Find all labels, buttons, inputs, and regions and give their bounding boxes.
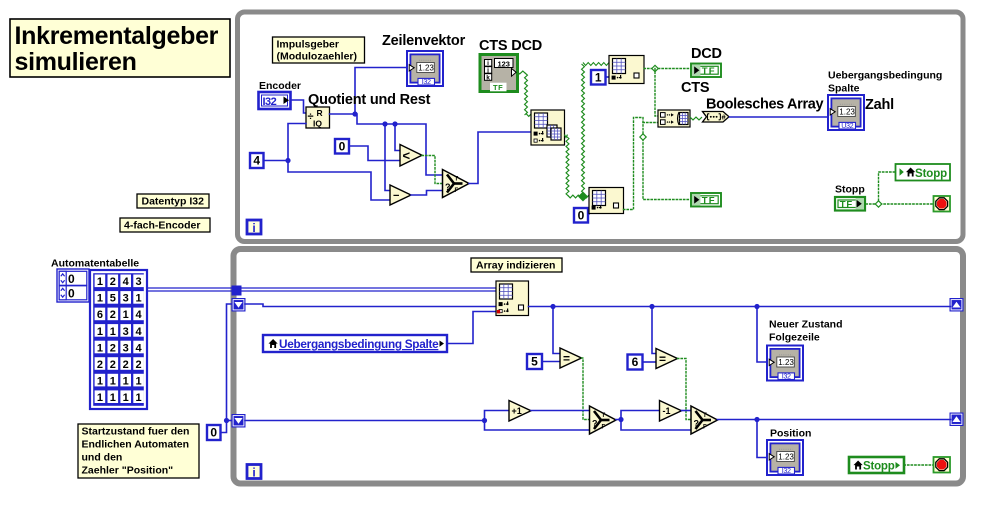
subtract node	[390, 185, 411, 205]
svg-text:1.23: 1.23	[839, 108, 855, 117]
2D array constant Automatentabelle	[90, 270, 147, 409]
TF indicator CTS	[691, 193, 721, 207]
wire: 6 to equals	[643, 361, 657, 363]
constant 0 (loop 1)	[335, 139, 349, 154]
svg-text:4: 4	[136, 326, 143, 338]
svg-text:6: 6	[97, 309, 103, 321]
svg-text:i: i	[252, 221, 255, 235]
svg-text:i: i	[487, 60, 489, 67]
svg-text:T: T	[602, 413, 606, 419]
iteration terminal i (loop 1)	[247, 220, 261, 235]
svg-text:Impulsgeber: Impulsgeber	[277, 39, 339, 51]
wire: state to Neuer Zustand indicator	[757, 307, 766, 363]
svg-text:Zaehler "Position": Zaehler "Position"	[82, 465, 174, 477]
svg-text:1: 1	[97, 375, 103, 387]
wire: initializer 0 to shift registers	[220, 304, 232, 433]
wire: select out to index array	[469, 132, 531, 184]
svg-text:4: 4	[253, 154, 260, 168]
wire: to select1 false input	[485, 421, 590, 431]
indicator terminal Zahl U32	[828, 95, 864, 130]
select node 1 (loop 2)	[590, 406, 617, 434]
svg-text:+1: +1	[512, 406, 522, 416]
junction diamond DCD	[652, 65, 658, 71]
wire: state to equals 6	[652, 307, 656, 354]
svg-text:Quotient und Rest: Quotient und Rest	[308, 92, 431, 108]
wire: local variable to index array column input	[447, 312, 496, 344]
comment box "Startzustand..."	[78, 424, 199, 478]
svg-text:5: 5	[531, 355, 538, 369]
svg-text:1: 1	[110, 375, 116, 387]
constant 0 initializer	[207, 425, 221, 440]
svg-text:F: F	[703, 425, 707, 431]
equals node 1	[560, 348, 582, 368]
svg-text:I32: I32	[782, 466, 791, 475]
wire: constant 4 distribution	[264, 160, 289, 162]
constant 1	[591, 70, 606, 85]
wire: branch to less-than node	[395, 124, 400, 151]
svg-text:0: 0	[578, 208, 585, 222]
wire: state to equals 5	[553, 307, 560, 354]
wire (boolean): stop distribution	[866, 203, 934, 205]
svg-text:?: ?	[445, 182, 451, 192]
select node 2 (loop 2)	[691, 406, 718, 434]
shift register right (state)	[950, 299, 963, 312]
svg-text:F: F	[455, 188, 459, 194]
svg-text:IQ: IQ	[313, 119, 322, 129]
svg-text:Automatentabelle: Automatentabelle	[51, 258, 139, 270]
svg-text:3: 3	[123, 293, 129, 305]
svg-text:Stopp: Stopp	[835, 184, 865, 196]
svg-text:1: 1	[97, 392, 103, 404]
TF indicator DCD	[691, 64, 721, 78]
decrement node -1	[660, 401, 682, 422]
junction quotient/Zeilenvektor	[352, 111, 357, 116]
constant 4	[250, 153, 264, 168]
wire: select2 out / position line	[718, 419, 951, 421]
svg-text:CTS DCD: CTS DCD	[479, 38, 542, 54]
svg-text:Uebergangsbedingung Spalte: Uebergangsbedingung Spalte	[279, 337, 439, 351]
svg-text:Folgezeile: Folgezeile	[769, 332, 820, 344]
svg-text:1: 1	[97, 342, 103, 354]
svg-text:Neuer Zustand: Neuer Zustand	[769, 319, 843, 331]
less-than node	[400, 145, 422, 167]
iteration terminal i (loop 2)	[247, 465, 261, 480]
svg-text:?: ?	[592, 419, 598, 429]
svg-text:4-fach-Encoder: 4-fach-Encoder	[124, 220, 200, 232]
svg-text:1.23: 1.23	[778, 358, 794, 367]
while loop 1 frame	[238, 12, 964, 242]
junction init	[224, 418, 229, 423]
constant 5	[527, 354, 542, 369]
wire: 0 to index node	[588, 210, 589, 214]
while loop 2 frame	[234, 249, 964, 484]
svg-text:0: 0	[68, 286, 75, 300]
svg-text:3: 3	[123, 326, 129, 338]
wire: 1 to index node	[606, 76, 610, 78]
svg-text:TF: TF	[702, 66, 716, 77]
svg-text:U32: U32	[841, 121, 853, 130]
junction diamond stop	[875, 201, 881, 207]
svg-text:I32: I32	[782, 372, 791, 381]
wire: number to Zahl indicator	[730, 116, 828, 118]
wire: new state main line	[529, 306, 951, 308]
svg-text:123: 123	[497, 59, 510, 68]
label box "Array indizieren"	[471, 258, 562, 272]
junction on 4-wire	[285, 158, 290, 163]
svg-text:Datentyp I32: Datentyp I32	[142, 196, 205, 208]
svg-text:Endlichen Automaten: Endlichen Automaten	[82, 439, 190, 451]
wire (boolean): Stopp local to stop button	[904, 464, 934, 466]
junction dots on quotient wire	[382, 121, 387, 126]
wire: 5 to equals	[542, 361, 560, 363]
svg-text:1: 1	[136, 293, 142, 305]
index array node (CTS bit)	[589, 188, 624, 214]
svg-text:-1: -1	[663, 406, 671, 416]
indicator terminal Zeilenvektor I32	[407, 51, 443, 86]
svg-text:I32: I32	[263, 96, 277, 108]
svg-text:F: F	[602, 425, 606, 431]
svg-text:?: ?	[694, 419, 700, 429]
increment node +1	[509, 401, 531, 422]
junction position	[482, 418, 487, 423]
local variable Uebergangsbedingung Spalte (write)	[263, 335, 447, 352]
wire (2D array): tunnel to index array	[242, 287, 497, 289]
svg-text:TF: TF	[840, 200, 853, 211]
svg-text:0: 0	[68, 272, 75, 286]
wire: position feedback line	[245, 420, 485, 422]
svg-text:CTS: CTS	[681, 80, 710, 96]
svg-text:2: 2	[110, 309, 116, 321]
constant 0 (index CTS)	[574, 208, 588, 223]
wire: +1 to select1 true input	[531, 410, 590, 412]
wire: to +1	[485, 411, 510, 421]
wire (boolean): equals1 to select1	[582, 358, 590, 420]
label "Datentyp I32"	[137, 194, 209, 208]
junction dots on state wire	[550, 304, 555, 309]
tunnel (2D array into loop 2)	[232, 286, 242, 296]
svg-text:(Modulozaehler): (Modulozaehler)	[277, 51, 358, 63]
svg-text:1: 1	[123, 309, 129, 321]
svg-text:1: 1	[97, 326, 103, 338]
wire: branch to subtract node	[385, 124, 390, 191]
svg-text:3: 3	[136, 276, 142, 288]
svg-text:1: 1	[123, 392, 129, 404]
wire (boolean): CTS bit to TF + build array	[624, 118, 691, 210]
index array node (DCD bit)	[609, 56, 644, 84]
stop button terminal (loop 2)	[934, 457, 951, 473]
shift register left (position)	[232, 415, 245, 428]
constant 6	[628, 355, 643, 370]
local variable Stopp (write)	[896, 164, 951, 181]
svg-text:1: 1	[136, 375, 142, 387]
svg-text:DCD: DCD	[691, 46, 722, 62]
control terminal Encoder I32	[259, 92, 291, 109]
svg-text:j: j	[486, 67, 489, 74]
svg-text:Startzustand fuer den: Startzustand fuer den	[82, 426, 190, 438]
svg-text:6: 6	[632, 355, 639, 369]
svg-text:T: T	[703, 413, 707, 419]
svg-text:4: 4	[136, 342, 143, 354]
wire: select1 out	[616, 411, 660, 420]
svg-text:Stopp: Stopp	[863, 461, 895, 473]
svg-text:2: 2	[123, 359, 129, 371]
local variable Stopp (read, loop 2)	[849, 457, 904, 473]
svg-text:und den: und den	[82, 452, 123, 464]
svg-text:1.23: 1.23	[778, 453, 794, 462]
shift register right (position)	[950, 413, 963, 426]
svg-text:R: R	[317, 108, 323, 118]
wire: -1 to select2 true input	[682, 410, 692, 412]
svg-text:2: 2	[110, 342, 116, 354]
wire (boolean): less-than to select s input	[422, 156, 443, 184]
indicator terminal Neuer Zustand I32	[767, 346, 803, 381]
svg-text:Zeilenvektor: Zeilenvektor	[382, 33, 466, 49]
build array node	[658, 110, 690, 127]
wire (boolean array): build array to converter	[690, 117, 702, 120]
stop button terminal (loop 1)	[934, 196, 951, 212]
wire: 0 to less-than	[349, 146, 400, 161]
label "4-fach-Encoder"	[120, 218, 210, 232]
svg-text:1: 1	[110, 326, 116, 338]
svg-text:1: 1	[595, 70, 602, 84]
svg-text:2: 2	[136, 359, 142, 371]
wire: state shift register to index array	[245, 304, 496, 307]
index array node (row select)	[531, 110, 565, 145]
svg-text:Zahl: Zahl	[865, 97, 894, 113]
svg-text:=: =	[563, 352, 570, 366]
svg-text:5: 5	[110, 293, 116, 305]
junction diamond CTS	[640, 134, 646, 140]
wire: quotient output	[330, 114, 443, 175]
wire (2D array): table to loop tunnel	[147, 287, 232, 289]
svg-text:−: −	[393, 190, 399, 202]
number to boolean array node (CTS DCD)	[480, 55, 518, 93]
svg-text:Position: Position	[770, 428, 811, 440]
svg-text:<: <	[403, 148, 411, 163]
equals node 2	[656, 349, 678, 369]
svg-text:simulieren: simulieren	[15, 48, 137, 76]
control terminal Stopp TF	[835, 197, 865, 211]
wire (boolean array): CTS DCD node to index array	[517, 71, 527, 74]
svg-text:Spalte: Spalte	[828, 83, 860, 95]
svg-text:=: =	[659, 352, 666, 366]
wire: Encoder to quotient node	[291, 100, 307, 113]
svg-text:2: 2	[110, 276, 116, 288]
svg-text:4: 4	[136, 309, 143, 321]
wire (boolean): DCD bit to TF indicator	[644, 68, 690, 70]
svg-text:Uebergangsbedingung: Uebergangsbedingung	[828, 70, 942, 82]
svg-text:k: k	[486, 74, 490, 81]
svg-text:0: 0	[210, 426, 217, 440]
wire: to Position indicator	[757, 420, 766, 458]
svg-text:Boolesches Array: Boolesches Array	[706, 97, 823, 113]
wire (boolean): equals2 to select2	[678, 359, 692, 420]
junction diamond (boolean array)	[579, 192, 588, 201]
index array node (loop 2)	[496, 281, 529, 316]
svg-text:TF: TF	[702, 196, 716, 207]
junction select1 out	[618, 417, 623, 422]
svg-text:3: 3	[123, 342, 129, 354]
wire (boolean): DCD branch to build array	[655, 69, 658, 117]
svg-text:1.23: 1.23	[418, 64, 434, 73]
svg-text:4: 4	[123, 276, 130, 288]
label "Impulsgeber (Modulozaehler)"	[273, 37, 365, 63]
select node (loop 1)	[443, 170, 470, 198]
svg-text:i: i	[252, 466, 255, 480]
svg-text:Encoder: Encoder	[259, 80, 301, 92]
wire (boolean array): row to index nodes	[565, 135, 568, 138]
array index selector	[57, 269, 89, 302]
svg-text:T: T	[455, 177, 459, 183]
svg-text:1: 1	[97, 276, 103, 288]
junction position out	[754, 417, 759, 422]
svg-text:Inkrementalgeber: Inkrementalgeber	[15, 22, 219, 50]
shift register left (state)	[232, 299, 245, 312]
svg-text:0: 0	[339, 139, 346, 153]
svg-text:2: 2	[97, 359, 103, 371]
svg-text:Stopp: Stopp	[915, 168, 947, 180]
svg-text:2: 2	[110, 359, 116, 371]
boolean array to number node [...]#	[703, 112, 730, 123]
wire: quotient to Zeilenvektor indicator	[355, 68, 406, 115]
svg-text:I32: I32	[422, 77, 431, 86]
svg-text:1: 1	[110, 392, 116, 404]
quotient and remainder node (÷ R IQ)	[306, 107, 330, 129]
svg-text:1: 1	[136, 392, 142, 404]
svg-text:TF: TF	[493, 83, 503, 92]
svg-text:Array indizieren: Array indizieren	[476, 260, 555, 272]
svg-text:1: 1	[97, 293, 103, 305]
wire: subtract out to select	[411, 191, 443, 196]
title comment box "Inkrementalgeber simulieren"	[10, 19, 230, 77]
indicator terminal Position I32	[767, 440, 803, 475]
svg-text:1: 1	[123, 375, 129, 387]
